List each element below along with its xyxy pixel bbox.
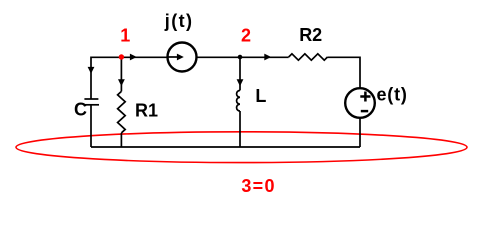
svg-text:C: C xyxy=(74,100,87,120)
wire top right corner to voltage source xyxy=(328,57,361,88)
svg-text:j(t): j(t) xyxy=(164,11,194,31)
current source internal arrow xyxy=(168,54,184,61)
wire voltage source to bottom rail xyxy=(359,118,361,147)
svg-text:3=0: 3=0 xyxy=(241,176,275,196)
capacitor C xyxy=(84,99,99,105)
current arrow on capacitor branch xyxy=(88,67,95,74)
current arrow on top wire right of node 2 xyxy=(264,54,271,61)
wire node2 to inductor xyxy=(239,57,241,90)
wire capacitor bottom to bottom rail xyxy=(90,105,92,147)
current source U1 circle xyxy=(168,43,197,72)
wire R1 to bottom rail xyxy=(120,133,122,147)
voltage source minus sign xyxy=(361,110,368,113)
svg-text:1: 1 xyxy=(120,26,130,46)
wire top middle (current source to R2) xyxy=(197,56,289,58)
svg-text:R: R xyxy=(135,100,148,120)
node 2 dot xyxy=(238,55,243,60)
voltage source e(t) circle xyxy=(345,88,375,118)
node 1 dot xyxy=(119,54,124,59)
inductor L xyxy=(237,90,240,111)
svg-text:2: 2 xyxy=(241,25,251,45)
wire node1 to R1 xyxy=(120,57,122,91)
current arrow on R1 branch xyxy=(118,79,125,86)
current arrow on top wire right of node 1 xyxy=(130,54,137,61)
wire inductor to bottom rail xyxy=(239,111,241,147)
svg-text:e(t): e(t) xyxy=(377,85,408,105)
svg-text:1: 1 xyxy=(148,100,158,120)
ground ellipse node 3 xyxy=(16,132,467,163)
svg-text:R2: R2 xyxy=(299,25,322,45)
resistor R1 xyxy=(118,91,126,132)
current arrow on inductor branch xyxy=(237,79,244,86)
svg-text:L: L xyxy=(255,86,266,106)
wire top left (capacitor branch top corner) xyxy=(91,57,168,99)
voltage source plus sign xyxy=(360,92,370,102)
resistor R2 xyxy=(289,54,328,60)
wire bottom rail xyxy=(91,146,360,148)
